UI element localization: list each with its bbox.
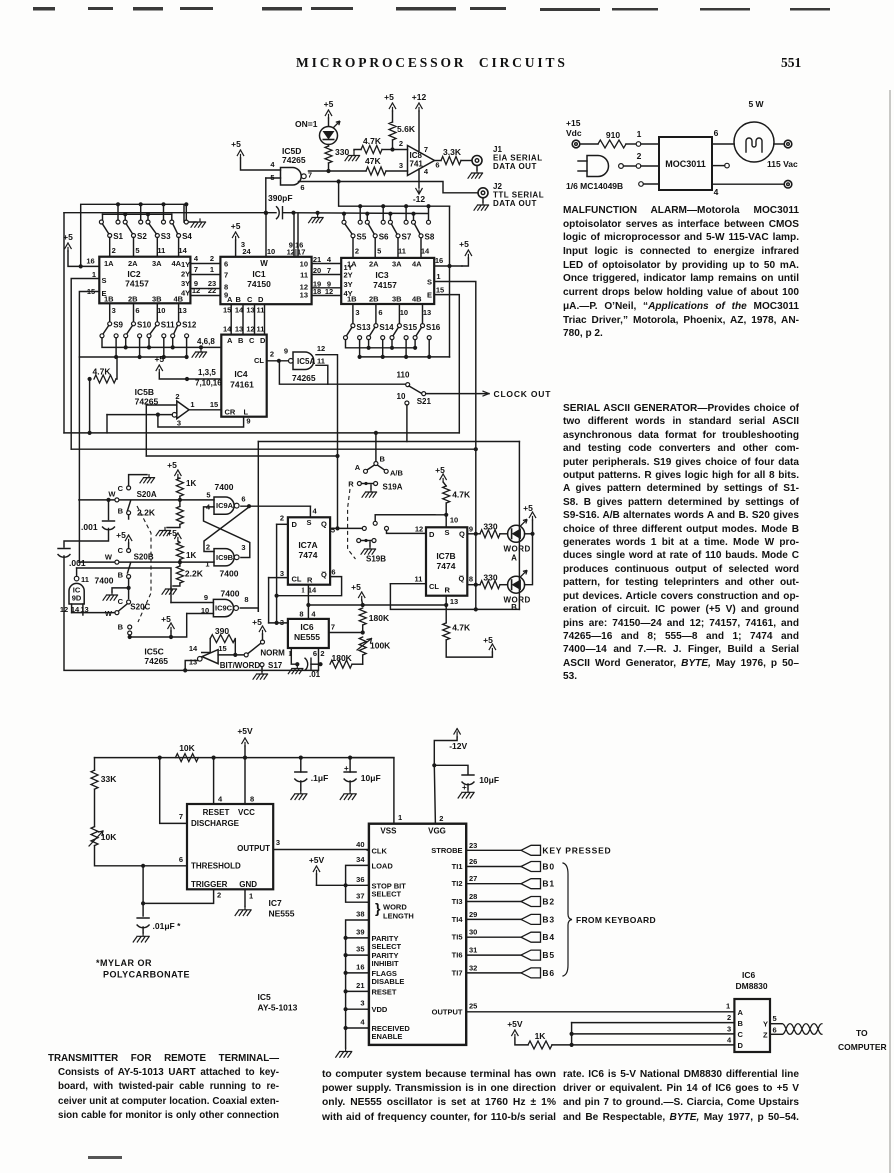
wire DM Y out — [770, 1023, 782, 1025]
junction 609 rail — [474, 607, 478, 611]
svg-text:VSS: VSS — [380, 827, 397, 836]
wire S17 gnd stem — [261, 667, 263, 671]
wire +5 to pin4 — [241, 158, 281, 170]
svg-text:S17: S17 — [268, 661, 283, 670]
svg-text:IC1: IC1 — [252, 269, 266, 279]
svg-text:DISCHARGE: DISCHARGE — [191, 819, 240, 828]
wire IC2 out y274.5 — [190, 274, 220, 276]
svg-text:7400: 7400 — [220, 569, 239, 579]
junction S12 lc bus3 — [171, 345, 175, 349]
junction S7 rc bus1 — [404, 204, 408, 208]
svg-text:S1: S1 — [113, 232, 123, 241]
wire left branch — [94, 758, 96, 771]
S20C contact B — [128, 625, 132, 629]
svg-text:3: 3 — [276, 838, 280, 847]
wire C stub — [572, 1033, 735, 1035]
svg-text:SELECT: SELECT — [372, 889, 402, 898]
switch S9 arm — [103, 326, 109, 335]
svg-text:1B: 1B — [347, 295, 357, 304]
wire IC5B in2 — [146, 404, 177, 406]
wire S6 to IC3 — [374, 238, 376, 258]
svg-text:1Y: 1Y — [181, 260, 190, 269]
svg-text:S19B: S19B — [366, 555, 386, 564]
IC1 74150 body — [220, 257, 311, 304]
wire gate input a — [578, 160, 587, 162]
svg-text:}: } — [375, 900, 381, 916]
svg-text:6: 6 — [331, 568, 335, 577]
wire 330B to LED — [500, 584, 508, 586]
wire IC6 pin3 — [269, 622, 288, 624]
wire cap2 down rail — [64, 556, 319, 670]
wire gate input b — [578, 170, 587, 172]
junction AY group2 955.1 — [344, 953, 348, 957]
wire MOC mid stub — [712, 165, 725, 167]
wire S3 to IC2 — [156, 238, 158, 257]
svg-text:9: 9 — [246, 417, 250, 426]
resistor 1K a — [176, 478, 183, 496]
capacitor 390pF — [277, 207, 283, 219]
wire B stub — [572, 1022, 735, 1024]
brace FROM KEYBOARD — [563, 863, 572, 976]
terminal +15Vdc input — [572, 140, 580, 148]
S20B contact C — [127, 549, 131, 553]
svg-text:A: A — [227, 295, 233, 304]
svg-text:D: D — [258, 295, 264, 304]
svg-text:THRESHOLD: THRESHOLD — [191, 862, 241, 871]
svg-text:D: D — [292, 520, 298, 529]
svg-text:B0: B0 — [542, 862, 554, 872]
wire AY pin stub 991.4 — [346, 990, 369, 992]
svg-text:+5: +5 — [167, 460, 177, 470]
svg-text:1/6 MC14049B: 1/6 MC14049B — [566, 181, 623, 191]
svg-text:37: 37 — [356, 892, 364, 901]
junction -12 cap — [432, 763, 436, 767]
ground IC6 — [288, 666, 303, 674]
junction D Qbar feedback — [275, 594, 279, 598]
junction S11 rc bus4 — [162, 355, 166, 359]
svg-text:14: 14 — [235, 306, 244, 315]
capacitor 10uF a — [344, 772, 356, 782]
svg-text:+5: +5 — [231, 221, 241, 231]
svg-text:S21: S21 — [417, 397, 432, 406]
wire TI6 out — [466, 954, 521, 956]
power +5V DM — [512, 1030, 518, 1038]
wire S20A common to IC9A — [79, 499, 214, 501]
wire IC5B in3 — [107, 414, 172, 416]
wire S16 lc stub — [414, 340, 416, 348]
svg-text:LENGTH: LENGTH — [383, 912, 414, 921]
svg-text:+5: +5 — [435, 465, 445, 475]
svg-text:+5: +5 — [252, 617, 262, 627]
wire IC3 pin16 +5 — [434, 265, 462, 267]
svg-text:S14: S14 — [379, 323, 394, 332]
resistor 1K b — [176, 543, 183, 560]
svg-text:IC5A: IC5A — [297, 357, 315, 366]
wire IC1 pin9-16 — [293, 213, 295, 257]
ground 2.2K a — [156, 528, 171, 536]
switch S12 pivot — [177, 322, 181, 326]
svg-text:2: 2 — [637, 151, 642, 161]
wire rail 475 lower — [475, 534, 477, 610]
S14 left contact — [367, 336, 371, 340]
junction trigger cap — [141, 901, 145, 905]
svg-text:A: A — [355, 463, 361, 472]
svg-text:S11: S11 — [161, 321, 175, 330]
wire IC7B CL in — [390, 583, 426, 585]
S19B lower arm — [361, 540, 372, 542]
resistor 330 A — [480, 530, 500, 538]
wire TI3 out — [466, 901, 521, 903]
svg-text:+12: +12 — [412, 92, 427, 102]
power +5 S20 1K a — [175, 470, 181, 478]
wire +12 to opamp — [418, 111, 420, 151]
svg-text:+15: +15 — [566, 118, 581, 128]
bus4 S9-12 — [79, 356, 186, 358]
power +5 S17 — [259, 626, 265, 634]
LED word B — [508, 576, 525, 593]
wire S20B C up — [128, 543, 130, 549]
keyboard arrow TI3 — [521, 897, 541, 907]
svg-text:22: 22 — [208, 286, 216, 295]
switch A/B arm right — [378, 465, 385, 470]
cross diag IC9B to IC9A — [204, 507, 250, 558]
junction S6 rc bus1 — [381, 204, 385, 208]
wire 555 pin4 — [213, 758, 215, 804]
node pin2 — [636, 164, 641, 169]
svg-text:A: A — [511, 554, 517, 563]
wire IC5C out line — [218, 654, 246, 656]
svg-text:3: 3 — [399, 161, 403, 170]
svg-text:1: 1 — [249, 892, 253, 901]
svg-text:+5: +5 — [324, 99, 334, 109]
wire S12 rc stub — [186, 338, 188, 357]
svg-text:2: 2 — [439, 814, 443, 823]
svg-text:9: 9 — [284, 347, 288, 356]
resistor 910 — [598, 140, 626, 148]
wire 47K to opamp pin3 — [386, 170, 408, 172]
power +5 IC1 — [232, 232, 238, 240]
wire .1uF gnd — [300, 781, 302, 791]
wire cap01 gnd — [142, 927, 144, 933]
wire +5 180K stem — [362, 600, 363, 605]
ground bus3 — [192, 349, 207, 357]
svg-text:24: 24 — [242, 247, 251, 256]
svg-text:S15: S15 — [403, 323, 418, 332]
switch S4 pivot — [177, 234, 181, 238]
svg-text:Q: Q — [321, 520, 327, 529]
svg-text:NE555: NE555 — [269, 909, 295, 919]
pin 39 AY tick — [367, 937, 369, 939]
svg-text:TI5: TI5 — [452, 933, 463, 942]
wire S13 rc stub — [359, 340, 361, 357]
junction S20A dot — [178, 498, 182, 502]
switch S5 arm — [345, 224, 352, 234]
pin 4 AY tick — [367, 1027, 369, 1029]
svg-text:74150: 74150 — [247, 279, 271, 289]
S10 left contact — [124, 334, 128, 338]
junction S5 rc bus1 — [358, 204, 362, 208]
junction pin6/bus1 tap — [337, 179, 341, 183]
svg-text:23: 23 — [469, 841, 477, 850]
svg-text:NORM: NORM — [260, 649, 285, 658]
svg-text:8: 8 — [469, 575, 473, 584]
switch S2 arm — [126, 224, 132, 234]
svg-text:+5: +5 — [154, 354, 164, 364]
svg-text:6: 6 — [135, 306, 139, 315]
power +5 5.6K — [389, 103, 395, 111]
switch S20A arm — [128, 501, 131, 511]
wire H4 left rail — [145, 405, 147, 456]
svg-text:OUTPUT: OUTPUT — [237, 844, 270, 853]
svg-text:TRIGGER: TRIGGER — [191, 880, 228, 889]
wire +5 to 5.6K — [392, 111, 394, 122]
S21 arm contact — [422, 392, 426, 396]
junction CL feedback — [277, 359, 281, 363]
svg-text:15: 15 — [436, 286, 444, 295]
wire S14 lc stub — [368, 340, 370, 348]
svg-text:W: W — [108, 490, 116, 499]
wire 10uF gnd — [349, 781, 351, 791]
junction capline gnd — [316, 211, 320, 215]
wire IC7B R down — [445, 596, 447, 623]
wire S20C B stub — [129, 635, 131, 637]
svg-text:3Y: 3Y — [181, 279, 190, 288]
wire IC1-IC4 x264.5 — [264, 304, 266, 334]
svg-text:15: 15 — [218, 644, 226, 653]
junction pin1 gnd — [295, 662, 299, 666]
svg-text:34: 34 — [356, 855, 365, 864]
wire 180K b to 100K — [352, 663, 363, 665]
svg-text:7: 7 — [308, 171, 312, 180]
wire S20B common to IC9B — [79, 561, 214, 563]
wire IC2 pin6 down — [133, 303, 135, 322]
junction S16 rc bus4b — [427, 355, 431, 359]
junction H4 rail337 — [335, 454, 339, 458]
svg-text:RESET: RESET — [203, 808, 230, 817]
rail bus1b down — [449, 206, 451, 357]
svg-text:330: 330 — [335, 147, 349, 157]
switch S11 pivot — [155, 322, 159, 326]
contact A/B — [384, 469, 388, 473]
twisted pair — [782, 1024, 822, 1035]
S17 contact gnd — [260, 663, 264, 667]
svg-text:AY-5-1013: AY-5-1013 — [258, 1003, 298, 1013]
svg-text:B5: B5 — [542, 950, 554, 960]
junction S2 stub bus2 — [123, 212, 127, 216]
S12 right contact — [185, 334, 189, 338]
svg-text:13: 13 — [450, 597, 458, 606]
wire IC1-IC4 x231.2 — [230, 304, 232, 334]
svg-text:14: 14 — [421, 247, 430, 256]
S20B contact W — [115, 560, 119, 564]
ground S1-S4 bus — [191, 219, 206, 227]
svg-text:OUTPUT: OUTPUT — [432, 1008, 463, 1017]
svg-text:5: 5 — [773, 1014, 777, 1023]
svg-text:+5: +5 — [161, 614, 171, 624]
wire S1 to IC2 — [109, 238, 111, 257]
text block: MALFUNCTION ALARM — [563, 204, 799, 341]
svg-text:FROM KEYBOARD: FROM KEYBOARD — [576, 915, 656, 925]
svg-text:33K: 33K — [101, 774, 117, 784]
wire IC7B Q out — [467, 533, 480, 535]
IC6 DM8830 body — [734, 999, 770, 1052]
capacitor .001 b — [58, 549, 70, 558]
svg-text:Q: Q — [459, 530, 465, 539]
svg-text:4: 4 — [311, 610, 316, 619]
IC7A 7474 body — [288, 517, 330, 584]
junction S12 rc bus4 — [185, 355, 189, 359]
junction pin16 rail — [447, 264, 451, 268]
wire 390 right down — [234, 639, 236, 655]
junction H3 S rail — [474, 447, 478, 451]
wire S19A gnd stem — [370, 485, 372, 489]
svg-text:+5: +5 — [231, 139, 241, 149]
wire lamp to terminal — [774, 143, 783, 145]
svg-text:-12: -12 — [413, 194, 426, 204]
switch S16 arm — [416, 327, 421, 336]
svg-text:2: 2 — [320, 649, 324, 658]
svg-text:7: 7 — [194, 265, 198, 274]
svg-text:CR: CR — [225, 408, 236, 417]
svg-text:R: R — [445, 586, 451, 595]
svg-text:B: B — [380, 455, 386, 464]
cross diag IC9A to IC9B — [204, 507, 249, 552]
switch S1 pivot — [108, 234, 112, 238]
svg-text:4: 4 — [424, 167, 429, 176]
svg-text:VDD: VDD — [372, 1005, 388, 1014]
wire IC2 E rail — [79, 292, 99, 563]
wire +5 IC3 elbow — [462, 258, 468, 266]
svg-text:Q̅: Q̅ — [458, 574, 464, 583]
wire IC7B Qbar out — [467, 584, 480, 586]
svg-text:21: 21 — [313, 255, 321, 264]
power +5 IC9C — [168, 623, 174, 631]
wire .1uF top — [300, 758, 302, 772]
svg-text:E: E — [427, 291, 432, 300]
svg-text:10: 10 — [157, 306, 165, 315]
S7 right contact — [404, 220, 408, 224]
switch S20B arm — [128, 563, 131, 573]
svg-text:+5V: +5V — [309, 855, 325, 865]
ground S19B — [361, 546, 376, 554]
svg-text:13: 13 — [178, 306, 186, 315]
svg-text:IC3: IC3 — [375, 270, 389, 280]
gate IC9D 7400 vertical — [69, 583, 84, 604]
ground J2 — [474, 202, 489, 210]
S11 left contact — [147, 334, 151, 338]
power +5V AY — [313, 866, 319, 874]
wire 100K down — [362, 655, 364, 664]
svg-text:3: 3 — [241, 543, 245, 552]
switch S8 arm — [415, 224, 421, 234]
svg-text:S: S — [102, 276, 107, 285]
wire TI7 out — [466, 972, 521, 974]
wire +5 S17 stem — [262, 634, 264, 640]
wire R330 to node — [328, 163, 330, 171]
svg-text:C: C — [118, 484, 124, 493]
junction Qbar rail — [474, 583, 478, 587]
svg-text:4: 4 — [313, 507, 318, 516]
svg-text:15: 15 — [210, 400, 218, 409]
svg-text:S20A: S20A — [137, 490, 157, 499]
S19B arm dot — [364, 539, 367, 542]
svg-text:1: 1 — [301, 586, 305, 595]
wire opamp out — [435, 160, 442, 162]
svg-text:S6: S6 — [379, 233, 389, 242]
svg-text:12: 12 — [317, 344, 325, 353]
S19B upper right contact — [385, 526, 389, 530]
wire IC2 out y288.5 — [190, 288, 220, 290]
pin 16 AY tick — [367, 972, 369, 974]
junction B3 637 — [128, 635, 132, 639]
pot 10K arrow — [89, 831, 103, 846]
LED ON indicator — [320, 127, 338, 145]
wire 910 to node 1 — [626, 143, 636, 145]
svg-text:3B: 3B — [152, 295, 162, 304]
junction R330/out — [326, 169, 330, 173]
svg-text:D: D — [738, 1041, 744, 1050]
junction pin62 node — [318, 662, 322, 666]
wire S20A B stub — [128, 515, 130, 519]
wire S5 lc stub — [343, 214, 345, 221]
svg-text:4A: 4A — [412, 260, 422, 269]
junction pin2 node — [390, 147, 394, 151]
ground capline — [309, 215, 324, 223]
wire IC6 pin7 — [329, 632, 363, 634]
wire MOC pin6 to lamp — [712, 143, 734, 145]
junction pin13 line — [183, 668, 187, 672]
wire rail to VSS — [350, 758, 394, 824]
wire S5 rc stub — [359, 206, 361, 220]
junction S10 rc bus4 — [138, 355, 142, 359]
wire IC9C in10 — [187, 613, 214, 615]
wire pin5 down to cap line — [265, 178, 267, 213]
S20C contact W — [115, 611, 119, 615]
svg-text:1B: 1B — [104, 295, 114, 304]
bottom caption column 1 — [48, 1052, 279, 1124]
arrow clock out — [483, 391, 489, 396]
wire gnd elbow S20C — [112, 588, 129, 592]
ground S17 — [253, 671, 268, 679]
wire 10uF b gnd — [467, 784, 469, 789]
wire IC1 pin12-17 — [297, 213, 299, 257]
terminal 115vac low — [784, 180, 792, 188]
terminal lamp out — [784, 140, 792, 148]
wire S2 right stub — [140, 204, 142, 220]
svg-text:SELECT: SELECT — [372, 942, 402, 951]
wire W line — [265, 213, 267, 257]
ground 4.7K — [345, 153, 360, 161]
wire cap 10uF b stub — [434, 765, 468, 774]
svg-text:S: S — [307, 518, 312, 527]
wire S3 right stub — [163, 204, 165, 220]
pin 21 AY tick — [367, 990, 369, 992]
wire CL down rail — [390, 584, 519, 610]
svg-text:WORD: WORD — [383, 903, 407, 912]
svg-text:10: 10 — [267, 247, 275, 256]
svg-text:1: 1 — [637, 129, 642, 139]
junction AY group2 991.4 — [344, 989, 348, 993]
svg-text:.1μF: .1μF — [311, 773, 328, 783]
wire S8 rc stub — [428, 206, 430, 220]
wire 5.6K to node — [392, 140, 394, 150]
wire pot to pin6 — [95, 846, 188, 866]
svg-text:6: 6 — [773, 1026, 777, 1035]
ground 10uF b — [458, 789, 474, 798]
S20C contact C — [127, 600, 131, 604]
S5 right contact — [358, 220, 362, 224]
svg-text:4.7K: 4.7K — [452, 623, 471, 633]
